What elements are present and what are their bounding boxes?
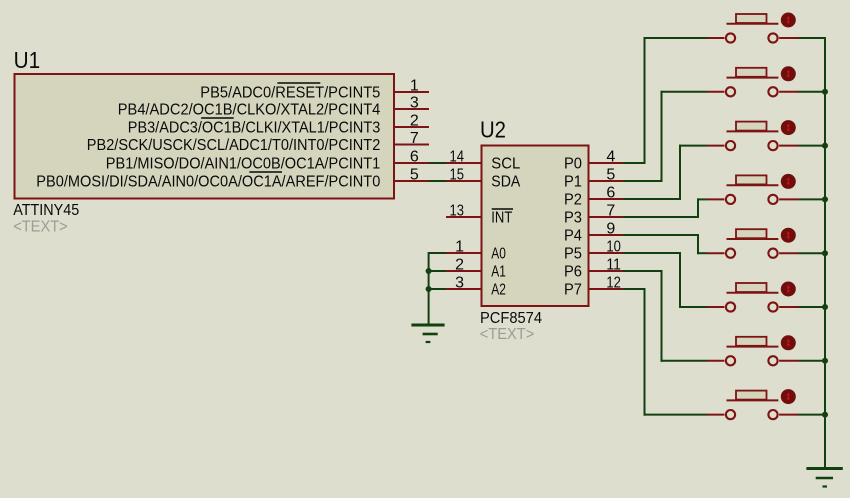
- wire button 4 to ground bus: [799, 198, 827, 200]
- svg-text:U1: U1: [14, 47, 40, 73]
- svg-text:PB3/ADC3/OC1B/CLKI/XTAL1/PCINT: PB3/ADC3/OC1B/CLKI/XTAL1/PCINT3: [128, 120, 381, 137]
- U2 pin 2 stub: [446, 270, 481, 272]
- svg-text:7: 7: [410, 130, 419, 147]
- wire P7 horizontal from pin: [623, 288, 645, 290]
- wire P4 to button 5: [697, 252, 707, 254]
- U2 pin 10 number label: [606, 238, 621, 255]
- svg-text:PB0/MOSI/DI/SDA/AIN0/OC0A/OC1A: PB0/MOSI/DI/SDA/AIN0/OC0A/OC1A/AREF/PCIN…: [36, 174, 380, 191]
- wire P4 vertical: [697, 234, 699, 254]
- wire P5 to button 6: [679, 306, 707, 308]
- U2 pin 3 stub: [446, 288, 481, 290]
- wire P2 vertical: [679, 145, 681, 200]
- svg-text:P6: P6: [564, 264, 582, 281]
- U1 pin name PB2: [87, 137, 381, 154]
- svg-text:1: 1: [455, 238, 464, 255]
- wire SCL net U1.6 to U2.14: [429, 162, 446, 164]
- push button 4 (net P3): [707, 175, 799, 204]
- node junction bus row 8: [822, 412, 828, 418]
- U2 pin 7 stub: [589, 216, 623, 218]
- U2 pin 6 stub: [589, 198, 623, 200]
- node junction A2: [426, 286, 432, 292]
- push button 7 (net P6): [707, 337, 799, 366]
- U1 pin name PB0: [36, 172, 380, 191]
- U1 pin 3 number label: [410, 94, 419, 111]
- wire ground rail vertical: [428, 252, 430, 325]
- svg-text:2: 2: [410, 112, 419, 129]
- svg-text:P7: P7: [564, 282, 582, 299]
- node junction bus row 4: [822, 196, 828, 202]
- U1 pin 2 number label: [410, 112, 419, 129]
- svg-text:INT: INT: [491, 210, 512, 227]
- U1 pin 1 stub: [394, 91, 429, 93]
- wire P4 horizontal from pin: [623, 234, 698, 236]
- wire P1 to button 2: [661, 91, 708, 93]
- U2 pin name P7: [564, 282, 582, 299]
- push button 6 actuator icon: [781, 282, 796, 297]
- push button 8 (net P7): [707, 391, 799, 420]
- U2 pin 7 number label: [606, 202, 615, 219]
- svg-text:9: 9: [606, 220, 615, 237]
- U2 pin 5 number label: [606, 166, 615, 183]
- U2 pin 13 stub: [446, 216, 481, 218]
- svg-text:A1: A1: [491, 264, 506, 281]
- node junction A1: [426, 268, 432, 274]
- push button 1 (net P0): [707, 14, 799, 43]
- U2 pin name A2: [491, 282, 506, 299]
- svg-text:3: 3: [410, 94, 419, 111]
- node junction bus row 7: [822, 358, 828, 364]
- U1 pin 1 number label: [410, 77, 419, 94]
- U2 pin 6 number label: [606, 184, 615, 201]
- U1 <TEXT> placeholder: [13, 219, 67, 236]
- wire button 1 to ground bus: [799, 37, 827, 39]
- U2 pin name A0: [491, 246, 506, 263]
- svg-text:6: 6: [410, 148, 419, 165]
- push button 6 (net P5): [707, 283, 799, 312]
- svg-text:P0: P0: [564, 156, 582, 173]
- wire P0 horizontal from pin: [623, 162, 645, 164]
- wire P7 to button 8: [644, 414, 708, 416]
- U1 reference label: [14, 47, 40, 73]
- U2 pin 11 number label: [606, 256, 621, 273]
- U1 pin 7 stub: [394, 144, 429, 146]
- U2 pin 12 stub: [589, 288, 623, 290]
- wire SDA net U1.5 to U2.15: [429, 180, 446, 182]
- svg-text:<TEXT>: <TEXT>: [13, 219, 67, 236]
- svg-text:10: 10: [606, 238, 621, 255]
- ground symbol (address pins): [411, 325, 444, 342]
- U2 pin 4 number label: [606, 148, 615, 165]
- U1 pin 6 number label: [410, 148, 419, 165]
- wire A2 to ground rail: [429, 288, 446, 290]
- wire A0 to ground rail: [429, 252, 446, 254]
- node junction bus row 2: [822, 89, 828, 95]
- U2 pin name P1: [564, 174, 582, 191]
- U2 pin name P5: [564, 246, 582, 263]
- push button 2 (net P1): [707, 68, 799, 97]
- push button 1 actuator icon: [781, 13, 796, 28]
- U2 pin 15 stub: [446, 180, 481, 182]
- U1 pin 5 stub: [394, 180, 429, 182]
- svg-text:5: 5: [410, 166, 419, 183]
- wire P5 vertical: [679, 252, 681, 308]
- svg-text:P4: P4: [564, 228, 582, 245]
- svg-text:ATTINY45: ATTINY45: [13, 202, 79, 219]
- U1 pin 5 number label: [410, 166, 419, 183]
- svg-text:SDA: SDA: [491, 174, 520, 191]
- U1 pin name PB4: [118, 102, 381, 119]
- wire P2 to button 3: [679, 145, 707, 147]
- svg-text:5: 5: [606, 166, 615, 183]
- svg-text:3: 3: [455, 274, 464, 291]
- U2 pin 10 stub: [589, 252, 623, 254]
- U1 value label ATTINY45: [13, 202, 79, 219]
- svg-text:PCF8574: PCF8574: [480, 310, 542, 327]
- svg-text:2: 2: [455, 256, 464, 273]
- U2 pin 14 stub: [446, 162, 481, 164]
- wire P1 vertical: [661, 91, 663, 182]
- U1 pin 3 stub: [394, 108, 429, 110]
- wire P6 vertical: [661, 270, 663, 362]
- wire button 8 to ground bus: [799, 414, 827, 416]
- U2 pin 14 number label: [450, 148, 465, 165]
- svg-text:PB2/SCK/USCK/SCL/ADC1/T0/INT0/: PB2/SCK/USCK/SCL/ADC1/T0/INT0/PCINT2: [87, 137, 381, 154]
- node junction bus row 5: [822, 250, 828, 256]
- push button 7 actuator icon: [781, 335, 796, 350]
- svg-text:U2: U2: [480, 116, 506, 142]
- U2 pin name SCL: [491, 156, 520, 173]
- svg-text:12: 12: [606, 274, 621, 291]
- U2 pin name SDA: [491, 174, 520, 191]
- IC U1 ATTINY45 body: [15, 74, 395, 199]
- svg-text:A0: A0: [491, 246, 506, 263]
- U2 pin 15 number label: [450, 166, 465, 183]
- svg-text:1: 1: [410, 77, 419, 94]
- U2 pin name P3: [564, 210, 582, 227]
- wire P0 vertical: [644, 37, 646, 164]
- U2 value label PCF8574: [480, 310, 542, 327]
- U2 pin 12 number label: [606, 274, 621, 291]
- U2 pin name P4: [564, 228, 582, 245]
- wire P1 horizontal from pin: [623, 180, 662, 182]
- svg-text:SCL: SCL: [491, 156, 520, 173]
- wire P3 horizontal from pin: [623, 216, 698, 218]
- svg-text:7: 7: [606, 202, 615, 219]
- wire P3 to button 4: [697, 198, 707, 200]
- svg-text:PB4/ADC2/OC1B/CLKO/XTAL2/PCINT: PB4/ADC2/OC1B/CLKO/XTAL2/PCINT4: [118, 102, 381, 119]
- push button 5 actuator icon: [781, 228, 796, 243]
- U2 pin 11 stub: [589, 270, 623, 272]
- svg-text:11: 11: [606, 256, 621, 273]
- wire P0 to button 1: [644, 37, 708, 39]
- U1 pin 6 stub: [394, 162, 429, 164]
- U2 pin 3 number label: [455, 274, 464, 291]
- wire P2 horizontal from pin: [623, 198, 680, 200]
- U2 pin 5 stub: [589, 180, 623, 182]
- wire ground bus vertical: [824, 37, 826, 469]
- U2 reference label: [480, 116, 506, 142]
- wire button 5 to ground bus: [799, 252, 827, 254]
- svg-text:15: 15: [450, 166, 465, 183]
- wire P6 to button 7: [661, 360, 708, 362]
- svg-text:P3: P3: [564, 210, 582, 227]
- svg-text:P1: P1: [564, 174, 582, 191]
- U1 pin name PB3: [128, 118, 381, 137]
- IC U2 PCF8574 body: [482, 146, 589, 307]
- U2 pin 2 number label: [455, 256, 464, 273]
- U2 pin 9 number label: [606, 220, 615, 237]
- svg-text:<TEXT>: <TEXT>: [480, 326, 535, 343]
- U2 pin 1 stub: [446, 252, 481, 254]
- push button 4 actuator icon: [781, 174, 796, 189]
- push button 2 actuator icon: [781, 66, 796, 81]
- wire P6 horizontal from pin: [623, 270, 662, 272]
- wire button 6 to ground bus: [799, 306, 827, 308]
- U2 pin name A1: [491, 264, 506, 281]
- node junction bus row 6: [822, 304, 828, 310]
- U1 pin 7 number label: [410, 130, 419, 147]
- U1 pin 2 stub: [394, 126, 429, 128]
- U2 pin 1 number label: [455, 238, 464, 255]
- U2 pin 4 stub: [589, 162, 623, 164]
- svg-text:P2: P2: [564, 192, 582, 209]
- U1 pin name PB5: [200, 83, 380, 102]
- svg-text:PB5/ADC0/RESET/PCINT5: PB5/ADC0/RESET/PCINT5: [200, 85, 380, 102]
- U2 pin name P2: [564, 192, 582, 209]
- ground symbol (button bus): [806, 469, 842, 487]
- wire P5 horizontal from pin: [623, 252, 680, 254]
- push button 3 actuator icon: [781, 120, 796, 135]
- U1 pin name PB1: [106, 156, 381, 173]
- svg-text:6: 6: [606, 184, 615, 201]
- wire P7 vertical: [644, 288, 646, 416]
- U2 <TEXT> placeholder: [480, 326, 535, 343]
- push button 8 actuator icon: [781, 389, 796, 404]
- svg-text:PB1/MISO/DO/AIN1/OC0B/OC1A/PCI: PB1/MISO/DO/AIN1/OC0B/OC1A/PCINT1: [106, 156, 381, 173]
- node junction bus row 3: [822, 143, 828, 149]
- push button 3 (net P2): [707, 122, 799, 151]
- U2 pin 9 stub: [589, 234, 623, 236]
- push button 5 (net P4): [707, 229, 799, 258]
- svg-text:4: 4: [606, 148, 615, 165]
- U2 pin name P6: [564, 264, 582, 281]
- wire P3 vertical: [697, 198, 699, 218]
- U2 pin name INT: [491, 209, 513, 227]
- U2 pin 13 number label: [450, 202, 465, 219]
- svg-text:13: 13: [450, 202, 465, 219]
- svg-text:A2: A2: [491, 282, 506, 299]
- wire button 2 to ground bus: [799, 91, 827, 93]
- wire A1 to ground rail: [429, 270, 446, 272]
- svg-text:P5: P5: [564, 246, 582, 263]
- wire button 7 to ground bus: [799, 360, 827, 362]
- wire button 3 to ground bus: [799, 145, 827, 147]
- svg-text:14: 14: [450, 148, 465, 165]
- U2 pin name P0: [564, 156, 582, 173]
